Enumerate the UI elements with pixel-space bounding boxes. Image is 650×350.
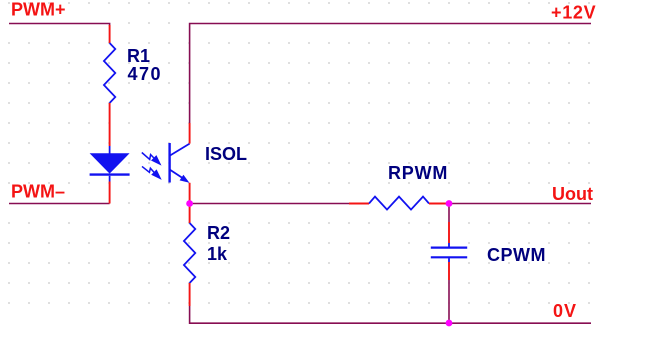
wire junction to capacitor <box>448 204 450 223</box>
capacitor CPWM bottom plate <box>431 256 467 258</box>
LED cathode bar <box>90 173 130 175</box>
resistor R1 pin 2 <box>109 103 111 146</box>
transistor ISOL collector line <box>170 144 190 156</box>
svg-text:CPWM: CPWM <box>487 245 546 265</box>
LED cathode pin <box>109 182 111 204</box>
svg-text:RPWM: RPWM <box>388 163 448 183</box>
svg-text:1k: 1k <box>207 244 228 264</box>
junction node capacitor/0V <box>446 320 453 327</box>
svg-text:PWM–: PWM– <box>11 182 65 202</box>
LED anode stub <box>109 146 111 154</box>
capacitor CPWM bottom stub <box>448 258 450 262</box>
capacitor CPWM top pin <box>448 222 450 243</box>
resistor RPWM body <box>369 197 429 210</box>
resistor RPWM pin 1 <box>349 203 369 205</box>
capacitor CPWM bottom pin <box>448 262 450 280</box>
LED cathode stub <box>109 176 111 182</box>
wire PWM- rail <box>9 203 110 205</box>
wire emitter node to RPWM <box>190 203 349 205</box>
svg-text:PWM+: PWM+ <box>11 0 66 20</box>
wire PWM+ rail top-left <box>9 24 110 27</box>
transistor ISOL emitter line <box>170 170 190 183</box>
resistor RPWM pin 2 <box>429 203 449 205</box>
photon arrow 1 <box>142 153 162 166</box>
svg-text:R2: R2 <box>207 223 230 243</box>
junction node emitter/R2 <box>186 200 193 207</box>
transistor collector pin <box>189 123 191 144</box>
resistor R2 pin 1 <box>189 204 191 224</box>
photon arrow 2 <box>142 166 162 180</box>
LED of optocoupler ISOL: triangle <box>90 153 130 173</box>
capacitor CPWM top stub <box>448 243 450 247</box>
transistor emitter pin <box>189 183 191 204</box>
svg-text:R1: R1 <box>127 46 150 66</box>
wire +12V rail top <box>190 24 591 124</box>
svg-text:+12V: +12V <box>551 3 596 23</box>
resistor R2 pin 2 <box>189 283 191 306</box>
transistor ISOL base bar <box>168 143 170 183</box>
capacitor CPWM top plate <box>431 247 467 249</box>
junction node RPWM/CPWM/Uout <box>446 200 453 207</box>
svg-text:0V: 0V <box>553 301 577 321</box>
resistor R1 body <box>104 43 115 103</box>
wire 0V rail bottom <box>190 306 591 323</box>
resistor R2 body <box>184 223 195 283</box>
resistor R1 pin 1 <box>109 25 111 43</box>
svg-text:470: 470 <box>128 64 163 84</box>
wire Uout net <box>449 203 591 205</box>
svg-text:ISOL: ISOL <box>205 144 247 164</box>
svg-text:Uout: Uout <box>552 184 593 204</box>
wire capacitor bottom to 0V <box>448 280 450 323</box>
